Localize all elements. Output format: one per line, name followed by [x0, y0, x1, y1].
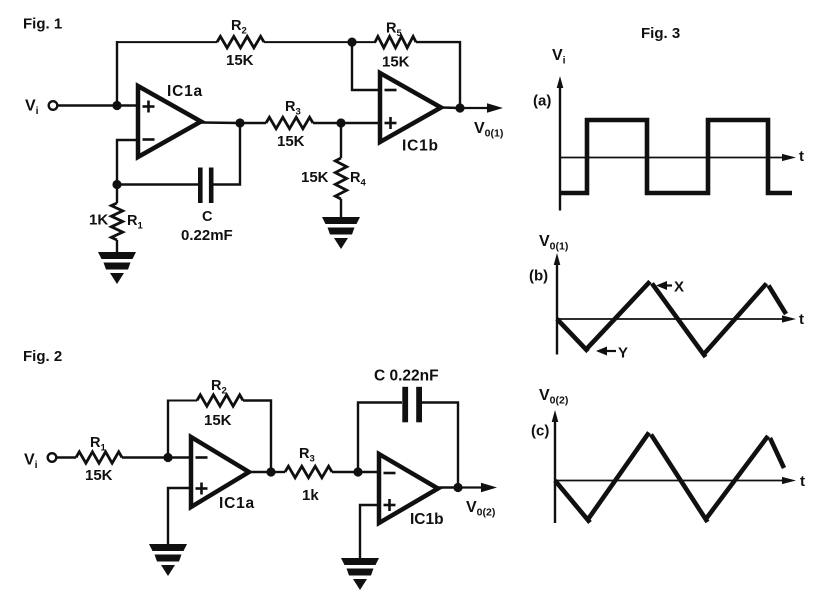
y axis (Fig.3b): [556, 262, 558, 355]
wire capacitor down to output node (Fig.2): [422, 403, 458, 488]
svg-text:15K: 15K: [85, 467, 113, 484]
wire R2 to node (Fig.1): [264, 41, 352, 43]
node IC1b output (Fig.1): [455, 103, 464, 112]
wire feedback to R2 (Fig.1): [117, 41, 217, 43]
triangle wave Vo(1) (Fig.3b): [557, 282, 786, 358]
wire node to IC1a (Fig.2): [168, 456, 191, 458]
node IC1a output (Fig.1): [235, 118, 244, 127]
node R3/R4 junction (Fig.1): [336, 118, 345, 127]
wire R5 to output node (Fig.1): [416, 42, 460, 108]
svg-text:Fig. 1: Fig. 1: [23, 16, 62, 33]
wire IC1b output with arrow to Vo(1): [441, 103, 503, 113]
wire IC1a + input to ground (Fig.2): [168, 488, 191, 544]
input terminal Vi (Fig.2): [48, 453, 57, 462]
node at IC1a + input (Fig.1): [112, 101, 121, 110]
svg-text:(b): (b): [529, 268, 548, 285]
x axis (Fig.3a): [560, 157, 785, 159]
resistor R3 (Fig.2): [285, 466, 332, 477]
op-amp IC1a (Fig.2): [191, 437, 249, 507]
wire IC1a output to R3 (Fig.2): [250, 471, 285, 473]
ground at IC1a + (Fig.2): [149, 544, 187, 576]
wire node up to feedback line (Fig.1): [116, 41, 118, 106]
svg-text:IC1a: IC1a: [219, 495, 255, 512]
op-amp IC1a (Fig.1): [138, 86, 201, 157]
op-amp IC1b (Fig.1): [380, 73, 441, 142]
svg-text:t: t: [799, 311, 804, 328]
wire R3 to node: [313, 122, 341, 124]
node IC1a output (Fig.2): [266, 467, 275, 476]
svg-text:15K: 15K: [301, 169, 329, 186]
resistor R1 (Fig.1): [111, 185, 122, 253]
node R2/R5 junction (Fig.1): [347, 38, 356, 47]
node IC1b minus input (Fig.2): [353, 467, 362, 476]
wire Vi to R1 (Fig.2): [56, 456, 76, 458]
svg-text:C: C: [202, 209, 213, 225]
svg-text:(c): (c): [531, 423, 549, 440]
resistor R1 (Fig.2): [76, 452, 122, 463]
marker arrow Y (Fig.3b): [604, 350, 616, 352]
ground at IC1b + (Fig.2): [341, 558, 379, 590]
wire to R2 (Fig.2): [168, 400, 197, 402]
svg-text:t: t: [800, 473, 805, 490]
marker arrow X (Fig.3b): [664, 284, 672, 286]
svg-text:X: X: [674, 279, 684, 296]
wire node up to capacitor (Fig.2): [358, 403, 402, 473]
input terminal Vi (Fig.1): [49, 101, 58, 110]
capacitor C (Fig.1): [198, 168, 214, 204]
x axis (Fig.3c): [555, 480, 785, 482]
svg-text:15K: 15K: [382, 54, 410, 71]
wire node to R3: [240, 122, 266, 124]
triangle wave Vo(2) (Fig.3c): [555, 433, 784, 523]
wire Vi to node (Fig.1): [57, 104, 117, 106]
y axis (Fig.3c): [554, 419, 556, 523]
wire R1 to node (Fig.2): [122, 456, 168, 458]
resistor R2 (Fig.2): [197, 395, 243, 406]
resistor R2 (Fig.1): [217, 36, 264, 47]
svg-text:t: t: [799, 148, 804, 165]
svg-text:15K: 15K: [204, 412, 232, 429]
svg-text:Fig. 3: Fig. 3: [641, 25, 680, 42]
resistor R3 (Fig.1): [266, 117, 313, 128]
wire IC1a output to node: [201, 121, 240, 124]
wire IC1a minus input: [117, 140, 138, 185]
ground below R1 (Fig.1): [98, 252, 136, 284]
svg-text:15K: 15K: [226, 52, 254, 69]
wire IC1b + input to ground (Fig.2): [360, 505, 379, 558]
wire node up and over R2 (Fig.2): [167, 400, 169, 458]
wire capacitor to output node (Fig.1): [214, 123, 241, 185]
svg-text:Y: Y: [618, 345, 628, 362]
svg-text:(a): (a): [533, 93, 551, 110]
node C/R1 junction (Fig.1): [112, 180, 121, 189]
wire node to IC1b (Fig.2): [358, 471, 379, 473]
svg-text:Fig. 2: Fig. 2: [23, 348, 62, 365]
wire node to capacitor C (Fig.1): [117, 183, 198, 185]
svg-text:15K: 15K: [277, 133, 305, 150]
wire IC1b output with arrow to Vo(2): [438, 483, 497, 493]
svg-text:IC1b: IC1b: [410, 511, 444, 528]
op-amp IC1b (Fig.2): [379, 454, 438, 523]
wire node to IC1a + input: [117, 104, 138, 106]
svg-text:0.22mF: 0.22mF: [181, 227, 233, 244]
resistor R4 (Fig.1): [335, 123, 346, 217]
svg-text:IC1a: IC1a: [167, 83, 203, 100]
wire R3 to node (Fig.2): [332, 471, 358, 473]
svg-text:1k: 1k: [302, 487, 319, 504]
wire node to IC1b + input: [341, 122, 380, 124]
ground below R4 (Fig.1): [322, 217, 360, 249]
svg-text:C 0.22nF: C 0.22nF: [374, 368, 439, 385]
x axis (Fig.3b): [557, 318, 785, 320]
wire junction down to IC1b minus (Fig.1): [352, 42, 380, 90]
node IC1b output (Fig.2): [453, 483, 462, 492]
svg-text:IC1b: IC1b: [402, 138, 439, 155]
node IC1a minus input (Fig.2): [163, 453, 172, 462]
wire R2 down to output node (Fig.2): [243, 401, 271, 473]
svg-text:1K: 1K: [89, 212, 108, 229]
capacitor C (Fig.2): [402, 387, 422, 423]
resistor R5 (Fig.1): [352, 36, 416, 47]
square wave Vi (Fig.3a): [560, 120, 792, 193]
y axis (Fig.3a): [559, 85, 561, 211]
